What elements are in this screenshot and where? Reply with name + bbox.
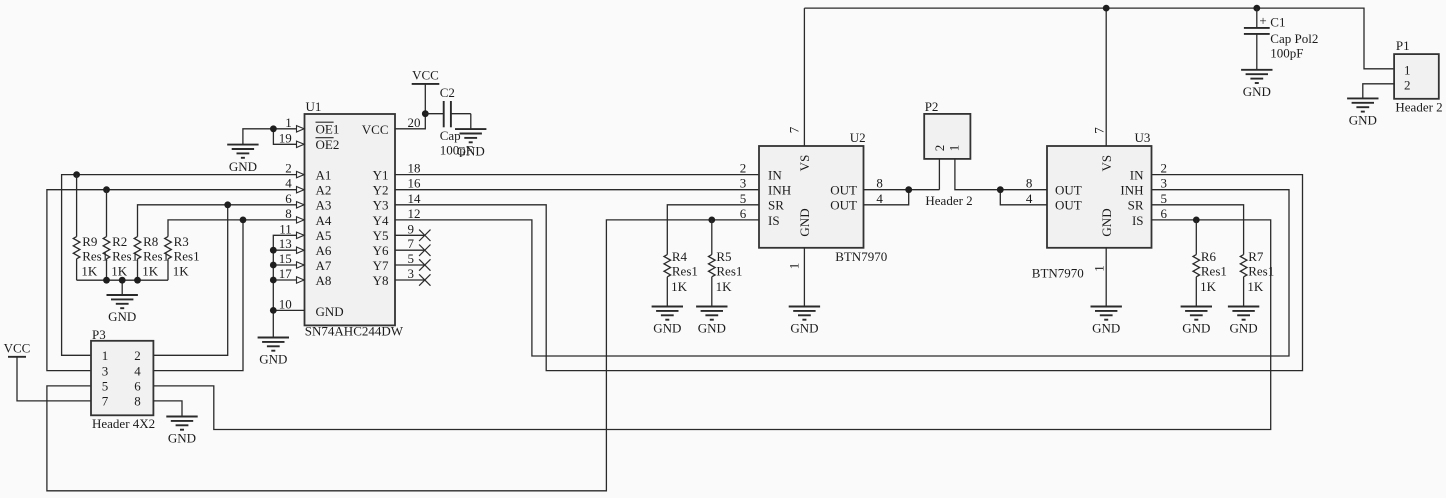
svg-text:GND: GND [1182,321,1210,336]
svg-text:1K: 1K [81,264,98,279]
svg-text:3: 3 [740,176,747,191]
wire U2 IS net to P3 pin5 [47,220,759,491]
ground at U3 [1091,307,1122,336]
svg-text:A8: A8 [316,273,332,288]
wire U3 IS net to P3 pin6 [153,220,1270,430]
svg-text:1K: 1K [671,279,688,294]
svg-text:R3: R3 [174,234,189,249]
svg-text:GND: GND [168,431,196,446]
resistor R4 [664,249,698,306]
svg-text:Header 2: Header 2 [1395,100,1442,115]
svg-text:Res1: Res1 [143,248,169,263]
junction rail C1 [1253,5,1260,12]
svg-text:7: 7 [1092,127,1107,134]
svg-text:7: 7 [102,394,109,409]
svg-text:1: 1 [285,115,292,130]
svg-text:C1: C1 [1270,14,1285,29]
wire P1 pin2 to ground [1363,84,1394,99]
svg-text:5: 5 [740,191,747,206]
svg-text:P3: P3 [92,327,106,342]
svg-text:VCC: VCC [412,67,439,82]
IC U3 BTN7970 body [1032,130,1152,281]
svg-text:IN: IN [768,168,782,183]
junction A7 [270,262,277,269]
svg-text:5: 5 [102,379,109,394]
svg-text:2: 2 [1161,161,1168,176]
svg-text:Res1: Res1 [1248,264,1274,279]
svg-text:P2: P2 [925,99,939,114]
svg-text:4: 4 [285,176,292,191]
svg-text:BTN7970: BTN7970 [1032,266,1084,281]
svg-text:8: 8 [1026,176,1033,191]
power VCC at U1 [412,67,440,84]
svg-text:13: 13 [279,236,292,251]
U1 left pin labels [316,122,344,319]
U3 pin labels [1055,155,1144,237]
resistor R5 [709,220,743,307]
wire net A3 branch to P3 pin2 [153,205,227,355]
svg-text:4: 4 [876,191,883,206]
wire U2 OUT pins to P2 pin2 [864,190,940,205]
ground at R4 [652,307,683,336]
svg-text:2: 2 [740,161,747,176]
junction R2 bus [103,277,110,284]
svg-text:R4: R4 [672,249,688,264]
wire A5-A8 ground bus [273,235,304,337]
svg-text:OE2: OE2 [316,137,340,152]
resistor R9 [73,175,108,281]
svg-text:Y2: Y2 [373,183,389,198]
wire net A4 branch to P3 pin4 [153,220,243,371]
ground at OE pins [227,145,258,174]
svg-text:GND: GND [1243,84,1271,99]
svg-text:16: 16 [408,176,422,191]
svg-text:Res1: Res1 [82,248,108,263]
svg-text:IN: IN [1130,168,1144,183]
svg-text:GND: GND [698,321,726,336]
svg-text:6: 6 [285,191,292,206]
svg-text:Y4: Y4 [373,213,389,228]
wire net Y1: U1 pin18 to U2 IN [395,174,759,176]
svg-text:1K: 1K [142,264,159,279]
svg-text:Y8: Y8 [373,273,389,288]
wire net Y3: U1 pin14 wraps to U3 IN [395,175,1303,371]
svg-text:18: 18 [408,161,421,176]
svg-text:10: 10 [279,296,292,311]
resistor R2 [103,190,138,281]
wire net A1: U1 pin2 to P3 pin1 [62,175,305,356]
U3 pin numbers [1026,127,1168,272]
svg-text:GND: GND [108,309,136,324]
junction rail U3 [1103,5,1110,12]
svg-text:Cap: Cap [440,128,461,143]
input triangle pin4 [297,187,305,193]
junction A8 [270,277,277,284]
svg-text:1: 1 [787,263,802,270]
svg-text:SN74AHC244DW: SN74AHC244DW [305,323,404,338]
svg-text:+: + [1259,13,1266,28]
junction pins1-19 [270,125,277,132]
svg-text:GND: GND [457,143,485,158]
ground at C1 [1241,70,1272,99]
U2 pin numbers [740,126,884,269]
svg-text:Y1: Y1 [373,168,389,183]
svg-text:6: 6 [134,379,141,394]
svg-text:2: 2 [134,348,141,363]
capacitor C1 Cap Pol2 [1244,8,1318,70]
ground at U2 [789,307,820,336]
svg-text:VCC: VCC [4,340,31,355]
svg-text:1K: 1K [1247,279,1264,294]
ground at P1 [1347,98,1378,127]
input triangle pin15 [297,262,305,268]
junction A2-R2 [103,186,110,193]
svg-text:Header 4X2: Header 4X2 [92,416,155,431]
svg-text:GND: GND [1099,208,1114,236]
svg-text:2: 2 [285,161,292,176]
svg-text:A6: A6 [316,243,332,258]
svg-text:1K: 1K [716,279,733,294]
svg-text:1K: 1K [173,264,190,279]
junction IS-R5 [708,217,715,224]
input triangle pin6 [297,202,305,208]
svg-text:1: 1 [1404,62,1411,77]
svg-text:6: 6 [740,206,747,221]
wire U2 pin7 VS [803,8,805,146]
svg-text:1K: 1K [1200,279,1217,294]
U1 right pin labels [362,122,389,288]
wire U3 pin7 VS [1105,8,1107,146]
wire P2 pin2 drop [938,159,940,190]
svg-text:SR: SR [1128,198,1144,213]
junction gnd tap [119,277,126,284]
svg-text:R8: R8 [143,234,158,249]
wire net Y4: U1 pin12 wraps to U3 INH [395,190,1289,356]
wire net Y2: U1 pin16 to U2 INH [395,189,759,191]
svg-text:GND: GND [1092,321,1120,336]
junction A3 branch [224,201,231,208]
svg-text:6: 6 [1161,206,1168,221]
svg-text:Y6: Y6 [373,243,389,258]
svg-text:R2: R2 [112,234,127,249]
svg-text:Y3: Y3 [373,198,389,213]
svg-text:U3: U3 [1135,130,1151,145]
svg-text:Res1: Res1 [672,264,698,279]
svg-text:9: 9 [408,221,415,236]
capacitor C2 [425,85,473,158]
wire VCC to P3 pin7 [17,357,91,401]
no-connect stubs Y5-Y8 [395,230,431,286]
wire net A3: U1 pin6 to R8 [138,205,305,237]
svg-text:GND: GND [797,208,812,236]
ground at R6 [1181,307,1212,336]
svg-text:17: 17 [279,266,293,281]
wire U2 SR to R4 [667,205,759,255]
svg-text:R6: R6 [1201,249,1217,264]
svg-text:19: 19 [279,130,292,145]
svg-text:A2: A2 [316,183,332,198]
IC U2 BTN7970 body [759,130,887,264]
junction U2 OUT [905,186,912,193]
svg-text:A5: A5 [316,228,332,243]
input triangle pin1 [297,126,305,132]
svg-text:OUT: OUT [1055,183,1082,198]
svg-text:15: 15 [279,251,292,266]
wire P3 pin8 to ground [153,401,182,417]
svg-text:5: 5 [1161,191,1168,206]
svg-text:Res1: Res1 [112,248,138,263]
svg-text:Cap Pol2: Cap Pol2 [1270,31,1318,46]
ground for pulldowns [107,295,138,324]
svg-text:GND: GND [1349,113,1377,128]
input triangle pin11 [297,232,305,238]
junction pin10 [270,307,277,314]
svg-text:1: 1 [102,348,109,363]
junction A4 branch [240,217,247,224]
svg-text:U1: U1 [306,99,322,114]
svg-text:Y7: Y7 [373,258,389,273]
svg-text:OUT: OUT [830,198,857,213]
svg-text:GND: GND [316,304,344,319]
svg-text:A3: A3 [316,198,332,213]
power VCC at P3 [4,340,31,357]
wire VS supply rail [804,8,1394,69]
svg-text:INH: INH [768,183,791,198]
resistor R8 [134,234,169,280]
svg-text:IS: IS [768,213,780,228]
U2 pin labels [768,155,857,237]
svg-text:GND: GND [259,352,287,367]
svg-text:GND: GND [1230,321,1258,336]
svg-text:8: 8 [285,206,292,221]
svg-text:3: 3 [102,363,109,378]
svg-text:2: 2 [1404,77,1411,92]
svg-text:OE1: OE1 [316,122,340,137]
svg-text:C2: C2 [440,85,455,100]
ground at P3 [166,417,197,446]
svg-text:P1: P1 [1396,38,1410,53]
svg-text:A4: A4 [316,213,332,228]
svg-text:INH: INH [1120,183,1143,198]
svg-text:GND: GND [790,321,818,336]
svg-text:VS: VS [797,155,812,172]
svg-text:SR: SR [768,198,784,213]
svg-text:Res1: Res1 [174,248,200,263]
svg-text:1: 1 [946,145,961,152]
ground at R5 [696,307,727,336]
connector P3 Header 4X2 [91,327,155,431]
ground at R7 [1228,307,1259,336]
wire net A2: U1 pin4 to P3 pin3 [47,190,305,371]
svg-text:8: 8 [134,394,141,409]
U1 pin numbers [279,115,421,312]
wire U1 pin1 OE1 to ground [243,129,305,145]
wire U2 pin1 GND [803,248,805,307]
svg-text:A1: A1 [316,168,332,183]
connector P1 Header 2 [1394,38,1443,115]
junction A6 [270,247,277,254]
junction U3 OUT [997,186,1004,193]
svg-text:5: 5 [408,251,415,266]
svg-text:GND: GND [653,321,681,336]
svg-text:OUT: OUT [1055,198,1082,213]
svg-text:4: 4 [1026,191,1033,206]
svg-text:R7: R7 [1248,249,1264,264]
svg-text:OUT: OUT [830,183,857,198]
svg-text:8: 8 [876,176,883,191]
svg-text:BTN7970: BTN7970 [835,249,887,264]
wire U1 pin19 OE2 tie [273,129,304,145]
wire U3 SR to R7 [1152,205,1244,255]
ground below U1 [258,338,289,367]
wire U1 pin20 VCC [395,84,425,129]
ground at C2 [455,129,486,158]
wire U3 pin1 GND [1105,248,1107,307]
junction VCC-C2 [422,110,429,117]
wire resistor bottom bus [77,280,168,295]
input triangle pin17 [297,277,305,283]
resistor R3 [165,234,200,280]
svg-text:3: 3 [1161,176,1168,191]
svg-text:4: 4 [134,363,141,378]
IC U1 SN74AHC244DW body [305,99,404,338]
svg-text:Header 2: Header 2 [925,193,972,208]
svg-text:11: 11 [279,221,292,236]
svg-text:R9: R9 [82,234,97,249]
svg-text:1: 1 [1091,265,1106,272]
svg-text:100pF: 100pF [1270,45,1303,60]
svg-text:A7: A7 [316,258,332,273]
svg-text:GND: GND [229,159,257,174]
svg-text:U2: U2 [850,130,866,145]
svg-text:14: 14 [408,191,422,206]
svg-text:3: 3 [408,266,415,281]
svg-text:Y5: Y5 [373,228,389,243]
input triangle pin8 [297,217,305,223]
input triangle pin19 [297,141,305,147]
junction IS-R6 [1193,217,1200,224]
svg-text:VCC: VCC [362,122,389,137]
svg-text:20: 20 [408,115,421,130]
svg-text:Res1: Res1 [716,264,742,279]
connector P2 Header 2 [924,99,972,208]
svg-text:7: 7 [787,126,802,133]
input triangle pin2 [297,171,305,177]
wire U3 OUT pins to P2 pin1 [1000,190,1047,205]
svg-text:7: 7 [408,236,415,251]
svg-text:IS: IS [1132,213,1144,228]
input triangle pin13 [297,247,305,253]
junction A1-R9 [73,171,80,178]
resistor R6 [1193,220,1227,307]
svg-text:12: 12 [408,206,421,221]
wire net A4: U1 pin8 to R3 [168,220,305,237]
svg-text:2: 2 [932,145,947,152]
svg-text:Res1: Res1 [1201,264,1227,279]
svg-text:VS: VS [1099,155,1114,172]
junction R8 bus [134,277,141,284]
wire P2 pin1 drop to U3 OUT net [955,159,1000,190]
resistor R7 [1240,249,1274,306]
svg-text:1K: 1K [111,264,128,279]
svg-text:R5: R5 [716,249,731,264]
